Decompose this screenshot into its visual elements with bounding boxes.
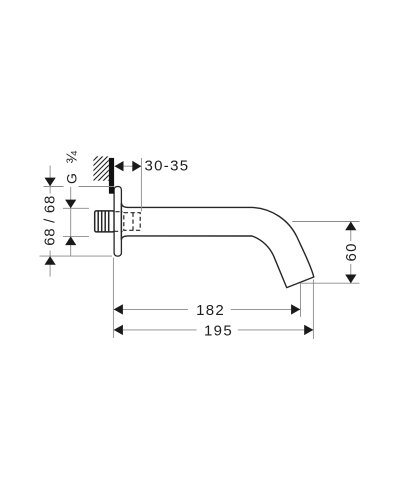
svg-text:68 / 68: 68 / 68 [41,195,58,246]
dimension line 68/68 [49,166,51,194]
arrow 68/68 top [45,178,56,187]
arrow 182 left [114,304,123,314]
dimension line 195 [114,329,197,331]
extension line 60 top [292,221,359,223]
svg-text:¾: ¾ [64,151,81,164]
extension line flange top [44,186,64,188]
hidden pipe dashed stub bottom [114,230,123,232]
hidden socket dashed mid line [132,213,134,231]
spout body [121,203,313,287]
thread connector G3/4 [95,211,114,232]
extension line spout outlet [300,283,302,317]
wall hatch [88,140,114,206]
arrow 182 right [291,304,300,314]
dimension line 30-35 [115,165,142,167]
dimension line 182 [114,308,188,310]
svg-text:195: 195 [204,322,233,339]
arrow 60 bottom [345,275,356,284]
wall surface bar [109,158,114,194]
extension line spout tip [312,280,314,340]
arrow 60 top [345,222,356,231]
svg-text:G: G [64,173,80,184]
extension line 60 bottom [301,282,360,284]
svg-text:30-35: 30-35 [145,157,190,174]
dimension line 60 [350,222,352,242]
svg-text:182: 182 [196,302,225,319]
hidden pipe dashed stub top [115,211,122,213]
arrow G3/4 bottom [65,236,76,245]
hidden socket dashed rect [124,213,140,231]
extension line 30-35 [140,158,142,212]
arrow 195 left [114,325,123,335]
dimension line G3/4 [70,187,72,256]
svg-text:60: 60 [343,242,360,261]
extension line flange bottom [40,255,113,257]
arrow G3/4 top [65,200,76,209]
arrow 68/68 bottom [45,256,56,265]
arrow 30-35 right [132,161,141,172]
escutcheon flange [114,187,121,257]
extension tick G3/4 bottom [63,235,89,237]
arrow 195 right [304,325,313,335]
extension line left (wall face) [112,258,114,338]
extension tick G3/4 top [63,207,89,209]
arrow 30-35 left [115,161,124,171]
